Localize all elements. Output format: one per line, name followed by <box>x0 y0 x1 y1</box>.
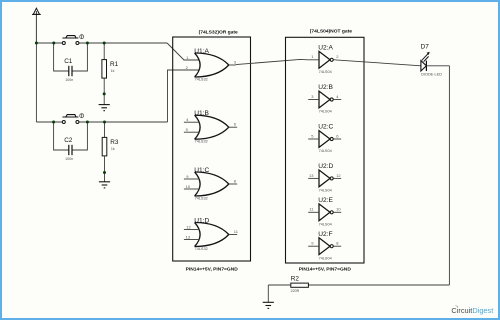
svg-text:D7: D7 <box>421 44 430 51</box>
junction row2 R3 <box>103 121 106 124</box>
wire U1:A out to U2:A in <box>236 59 308 64</box>
wire R1 bottom <box>103 78 105 105</box>
inverter U2:A <box>308 44 339 74</box>
junction supply/row1 <box>35 42 38 45</box>
resistor R1 <box>102 60 119 79</box>
svg-text:74LS32: 74LS32 <box>195 77 208 81</box>
wire to G3 <box>267 285 269 302</box>
ground G1 <box>99 105 110 111</box>
junction row1 C1 right <box>86 42 89 45</box>
wire R3 bottom <box>104 156 106 182</box>
svg-text:74LS04: 74LS04 <box>319 223 332 227</box>
op-amp U1:C <box>184 167 237 201</box>
svg-text:100n: 100n <box>65 78 73 82</box>
svg-text:74LS04: 74LS04 <box>319 189 332 193</box>
svg-text:74LS04: 74LS04 <box>319 256 332 260</box>
svg-text:U2:C: U2:C <box>318 124 333 131</box>
svg-text:220R: 220R <box>291 289 300 293</box>
svg-text:100n: 100n <box>65 157 73 161</box>
junction row2 C2 left <box>52 121 55 124</box>
svg-text:PIN14=+5V, PIN7=GND: PIN14=+5V, PIN7=GND <box>299 266 352 272</box>
resistor R2 <box>291 275 309 293</box>
LED D7 <box>421 44 443 77</box>
wire to U1:A pin2 <box>168 70 199 122</box>
capacitor C1 <box>54 43 88 82</box>
svg-text:U2:B: U2:B <box>318 84 333 91</box>
CircuitDigest logo <box>451 306 493 316</box>
wire R1 top <box>103 43 105 60</box>
svg-text:10: 10 <box>186 184 191 189</box>
wire row1 rail right <box>79 42 167 44</box>
svg-text:C2: C2 <box>64 137 73 144</box>
op-amp U1:D <box>184 217 239 251</box>
ground G3 <box>263 302 274 308</box>
IC box U2 74LS04 <box>286 28 365 272</box>
wire R3 top <box>104 122 106 137</box>
svg-text:(74LS32)OR gate: (74LS32)OR gate <box>199 29 238 35</box>
wire row1 rail left <box>36 42 62 44</box>
wire row2 rail left <box>36 121 62 123</box>
svg-text:U2:F: U2:F <box>318 231 332 238</box>
svg-text:74LS32: 74LS32 <box>195 140 208 144</box>
svg-text:R3: R3 <box>110 139 119 146</box>
junction below R3 <box>103 171 106 174</box>
svg-text:1k: 1k <box>111 147 115 151</box>
junction row1 C1 left <box>52 42 55 45</box>
svg-text:74LS04: 74LS04 <box>319 70 332 74</box>
push button SW2 <box>62 114 83 124</box>
junction row2 C2 right <box>86 121 89 124</box>
wire R2 right wire <box>308 284 449 286</box>
svg-text:PIN14=+5V, PIN7=GND: PIN14=+5V, PIN7=GND <box>186 266 239 272</box>
wire U2:A out to D7 <box>336 60 421 66</box>
wire D7 to right rail <box>427 65 449 67</box>
svg-text:C1: C1 <box>64 58 73 65</box>
svg-text:12: 12 <box>336 173 341 178</box>
capacitor C2 <box>54 122 88 161</box>
inverter U2:E <box>308 197 341 227</box>
inverter U2:F <box>308 231 341 261</box>
svg-text:13: 13 <box>186 234 191 239</box>
junction below R1 <box>103 92 106 95</box>
svg-text:U2:D: U2:D <box>318 163 333 170</box>
svg-text:U2:A: U2:A <box>318 44 333 51</box>
svg-text:74LS32: 74LS32 <box>195 247 208 251</box>
ground G2 <box>99 182 110 188</box>
inverter U2:B <box>308 84 341 114</box>
svg-text:74LS04: 74LS04 <box>319 149 332 153</box>
wire supply vertical <box>35 43 37 122</box>
svg-text:DIODE-LED: DIODE-LED <box>421 73 442 77</box>
svg-text:12: 12 <box>186 224 191 229</box>
svg-text:10: 10 <box>336 207 341 212</box>
wire row2 rail right <box>79 121 168 123</box>
inverter U2:C <box>308 124 341 154</box>
svg-text:74LS32: 74LS32 <box>195 196 208 200</box>
svg-text:R1: R1 <box>110 61 119 68</box>
svg-text:1k: 1k <box>111 69 115 73</box>
op-amp U1:B <box>184 110 237 144</box>
svg-text:R2: R2 <box>291 275 300 282</box>
svg-text:13: 13 <box>309 173 314 178</box>
svg-text:U2:E: U2:E <box>318 197 333 204</box>
op-amp U1:A <box>186 48 237 82</box>
wire R2 left wire <box>268 284 291 286</box>
svg-text:CircuitDigest: CircuitDigest <box>451 306 493 315</box>
svg-text:74LS04: 74LS04 <box>319 110 332 114</box>
wire right rail down <box>448 66 450 285</box>
svg-text:(74LS04)NOT gate: (74LS04)NOT gate <box>310 28 352 34</box>
resistor R3 <box>102 137 119 156</box>
wire to U1:A pin1 <box>167 43 199 60</box>
power supply arrow <box>32 8 41 43</box>
inverter U2:D <box>308 163 341 193</box>
IC box U1 74LS32 <box>173 29 251 272</box>
push button SW1 <box>62 35 83 45</box>
junction row1 R1 <box>103 42 106 45</box>
